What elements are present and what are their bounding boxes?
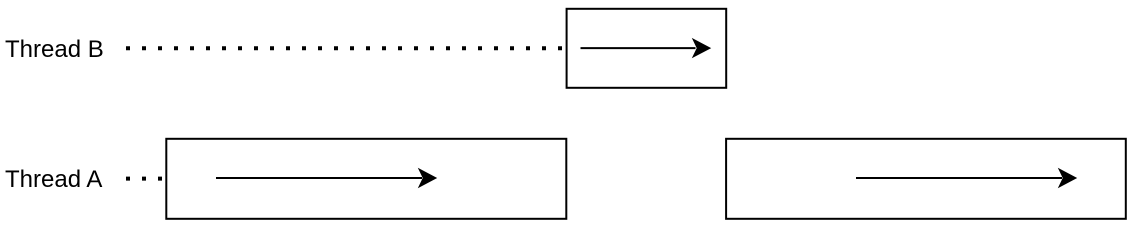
arrow Thread A first execution — [216, 168, 437, 188]
box Thread A second running interval — [726, 139, 1126, 219]
arrow Thread B execution — [581, 38, 712, 58]
arrow Thread A second execution — [856, 168, 1077, 188]
box Thread B running interval — [567, 9, 727, 88]
svg-text:Thread B: Thread B — [5, 36, 104, 63]
svg-text:Thread A: Thread A — [5, 166, 102, 193]
box Thread A first running interval — [166, 139, 566, 219]
dotted wait line Thread B — [126, 46, 566, 50]
dotted wait line Thread A — [126, 177, 166, 181]
